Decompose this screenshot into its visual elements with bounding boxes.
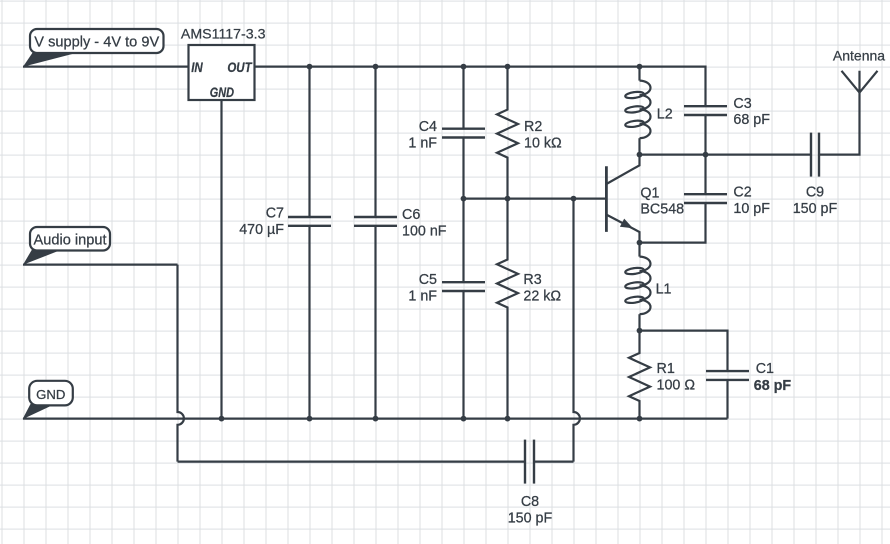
transistor Q1 collector bbox=[606, 155, 639, 184]
wire L1 node to C1 top bbox=[640, 331, 728, 372]
junction ground rail at C7 bbox=[307, 416, 313, 422]
svg-text:AMS1117-3.3: AMS1117-3.3 bbox=[181, 27, 266, 43]
svg-text:1 nF: 1 nF bbox=[408, 288, 437, 304]
label C9 value bbox=[793, 185, 838, 217]
svg-text:68 pF: 68 pF bbox=[733, 112, 770, 128]
label C6 value bbox=[402, 207, 447, 239]
transistor Q1 emitter bbox=[606, 215, 639, 243]
junction node line at C3 bbox=[703, 152, 709, 158]
antenna bbox=[842, 71, 878, 93]
svg-text:L2: L2 bbox=[657, 106, 673, 122]
resistor R3 bbox=[497, 199, 518, 419]
svg-text:OUT: OUT bbox=[227, 60, 253, 75]
wire ground rail bbox=[23, 418, 728, 420]
inductor L1 bbox=[625, 257, 651, 315]
junction ground rail at regulator GND bbox=[219, 416, 225, 422]
svg-text:L1: L1 bbox=[656, 282, 672, 298]
svg-text:C1: C1 bbox=[756, 361, 774, 377]
svg-text:V supply - 4V to 9V: V supply - 4V to 9V bbox=[34, 34, 159, 50]
svg-text:C3: C3 bbox=[733, 96, 751, 112]
label C3 value bbox=[733, 96, 770, 128]
svg-text:1 nF: 1 nF bbox=[408, 135, 437, 151]
wire C8 to base column bbox=[534, 461, 574, 463]
junction top rail at L2 bbox=[637, 64, 643, 70]
wire C9 to antenna bbox=[819, 93, 860, 155]
transistor Q1 base bar bbox=[605, 166, 608, 232]
wire C1 bottom to ground rail bbox=[726, 380, 728, 419]
capacitor C7 bbox=[288, 67, 331, 419]
svg-text:GND: GND bbox=[36, 387, 65, 402]
svg-text:Q1: Q1 bbox=[640, 186, 659, 202]
junction ground rail at C6 bbox=[373, 416, 379, 422]
capacitor C6 bbox=[354, 67, 397, 419]
wire L2 bottom to node bbox=[638, 138, 640, 154]
regulator U1 box bbox=[189, 45, 255, 100]
svg-text:150 pF: 150 pF bbox=[508, 510, 553, 526]
capacitor C4 bbox=[442, 67, 485, 199]
svg-text:IN: IN bbox=[191, 60, 203, 75]
junction top rail at R2 bbox=[505, 64, 511, 70]
wire C2 top to node line bbox=[704, 155, 706, 195]
svg-text:10 kΩ: 10 kΩ bbox=[524, 135, 562, 151]
label Q1 bbox=[640, 186, 684, 218]
svg-text:C4: C4 bbox=[419, 119, 437, 135]
wire L1 bottom to node bbox=[638, 314, 640, 330]
svg-text:GND: GND bbox=[210, 85, 234, 100]
wire base column vertical with hop over ground rail bbox=[574, 199, 580, 462]
wire top rail left (V supply to regulator IN) bbox=[23, 65, 189, 67]
junction base line at C8 column bbox=[571, 196, 577, 202]
wire L2 top bbox=[638, 67, 640, 81]
junction base line at C4 bbox=[461, 196, 467, 202]
callout GND bbox=[23, 381, 73, 420]
wire L1 top bbox=[638, 243, 640, 257]
wire node line (collector node to C9) bbox=[640, 154, 812, 156]
capacitor C3 bbox=[684, 106, 727, 115]
label C2 value bbox=[733, 185, 770, 217]
callout Audio input bbox=[23, 227, 110, 265]
svg-text:C9: C9 bbox=[806, 185, 824, 201]
wire audio input vertical with hop over ground rail bbox=[178, 265, 184, 462]
junction ground rail at R3 bbox=[505, 416, 511, 422]
svg-text:R1: R1 bbox=[657, 361, 675, 377]
wire base line bbox=[464, 198, 606, 200]
label R1 value bbox=[657, 361, 696, 393]
wire audio input horizontal bbox=[23, 264, 178, 266]
label C7 value bbox=[239, 205, 284, 237]
svg-text:Audio input: Audio input bbox=[33, 232, 106, 248]
junction node line at collector bbox=[637, 152, 643, 158]
junction top rail at C6 bbox=[373, 64, 379, 70]
junction ground rail at R1 bbox=[637, 416, 643, 422]
capacitor C8 bbox=[525, 440, 534, 484]
svg-text:10 pF: 10 pF bbox=[733, 201, 770, 217]
svg-text:R2: R2 bbox=[524, 119, 542, 135]
junction ground rail at C5 bbox=[461, 416, 467, 422]
svg-text:C6: C6 bbox=[402, 207, 420, 223]
inductor L2 bbox=[625, 81, 651, 139]
wire C3 bottom to node line bbox=[704, 115, 706, 155]
svg-text:C7: C7 bbox=[266, 205, 284, 221]
callout V supply bbox=[23, 29, 164, 67]
capacitor C1 bbox=[706, 371, 749, 380]
svg-text:Antenna: Antenna bbox=[833, 47, 885, 63]
svg-text:68 pF: 68 pF bbox=[754, 378, 792, 394]
wire C2 bottom to emitter node bbox=[640, 203, 706, 243]
label R2 value bbox=[524, 119, 562, 151]
svg-text:C5: C5 bbox=[419, 272, 437, 288]
svg-text:100 Ω: 100 Ω bbox=[657, 377, 696, 393]
capacitor C9 bbox=[811, 133, 819, 177]
junction base line at R2 bbox=[505, 196, 511, 202]
junction L1 bottom node bbox=[637, 328, 643, 334]
svg-text:R3: R3 bbox=[523, 272, 541, 288]
svg-text:150 pF: 150 pF bbox=[793, 201, 838, 217]
resistor R1 bbox=[629, 331, 650, 419]
svg-text:C2: C2 bbox=[733, 185, 751, 201]
label C1 value bbox=[754, 361, 792, 394]
wire regulator GND pin to ground rail bbox=[220, 100, 222, 419]
svg-text:BC548: BC548 bbox=[640, 202, 684, 218]
junction top rail at C4 bbox=[461, 64, 467, 70]
label C5 value bbox=[408, 272, 437, 304]
label R3 value bbox=[523, 272, 561, 304]
svg-text:470 µF: 470 µF bbox=[239, 222, 284, 238]
wire top rail right (regulator OUT to C3 column) bbox=[255, 67, 706, 107]
capacitor C2 bbox=[684, 194, 727, 203]
transistor Q1 emitter arrow bbox=[620, 219, 633, 229]
resistor R2 bbox=[497, 67, 518, 199]
svg-text:100 nF: 100 nF bbox=[402, 223, 447, 239]
junction top rail at C7 bbox=[307, 64, 313, 70]
label C4 value bbox=[408, 119, 437, 151]
svg-text:C8: C8 bbox=[521, 494, 539, 510]
junction emitter node bbox=[637, 240, 643, 246]
svg-text:22 kΩ: 22 kΩ bbox=[523, 288, 561, 304]
capacitor C5 bbox=[442, 199, 485, 419]
wire bottom audio to C8 bbox=[178, 461, 526, 463]
label C8 value bbox=[508, 494, 553, 526]
